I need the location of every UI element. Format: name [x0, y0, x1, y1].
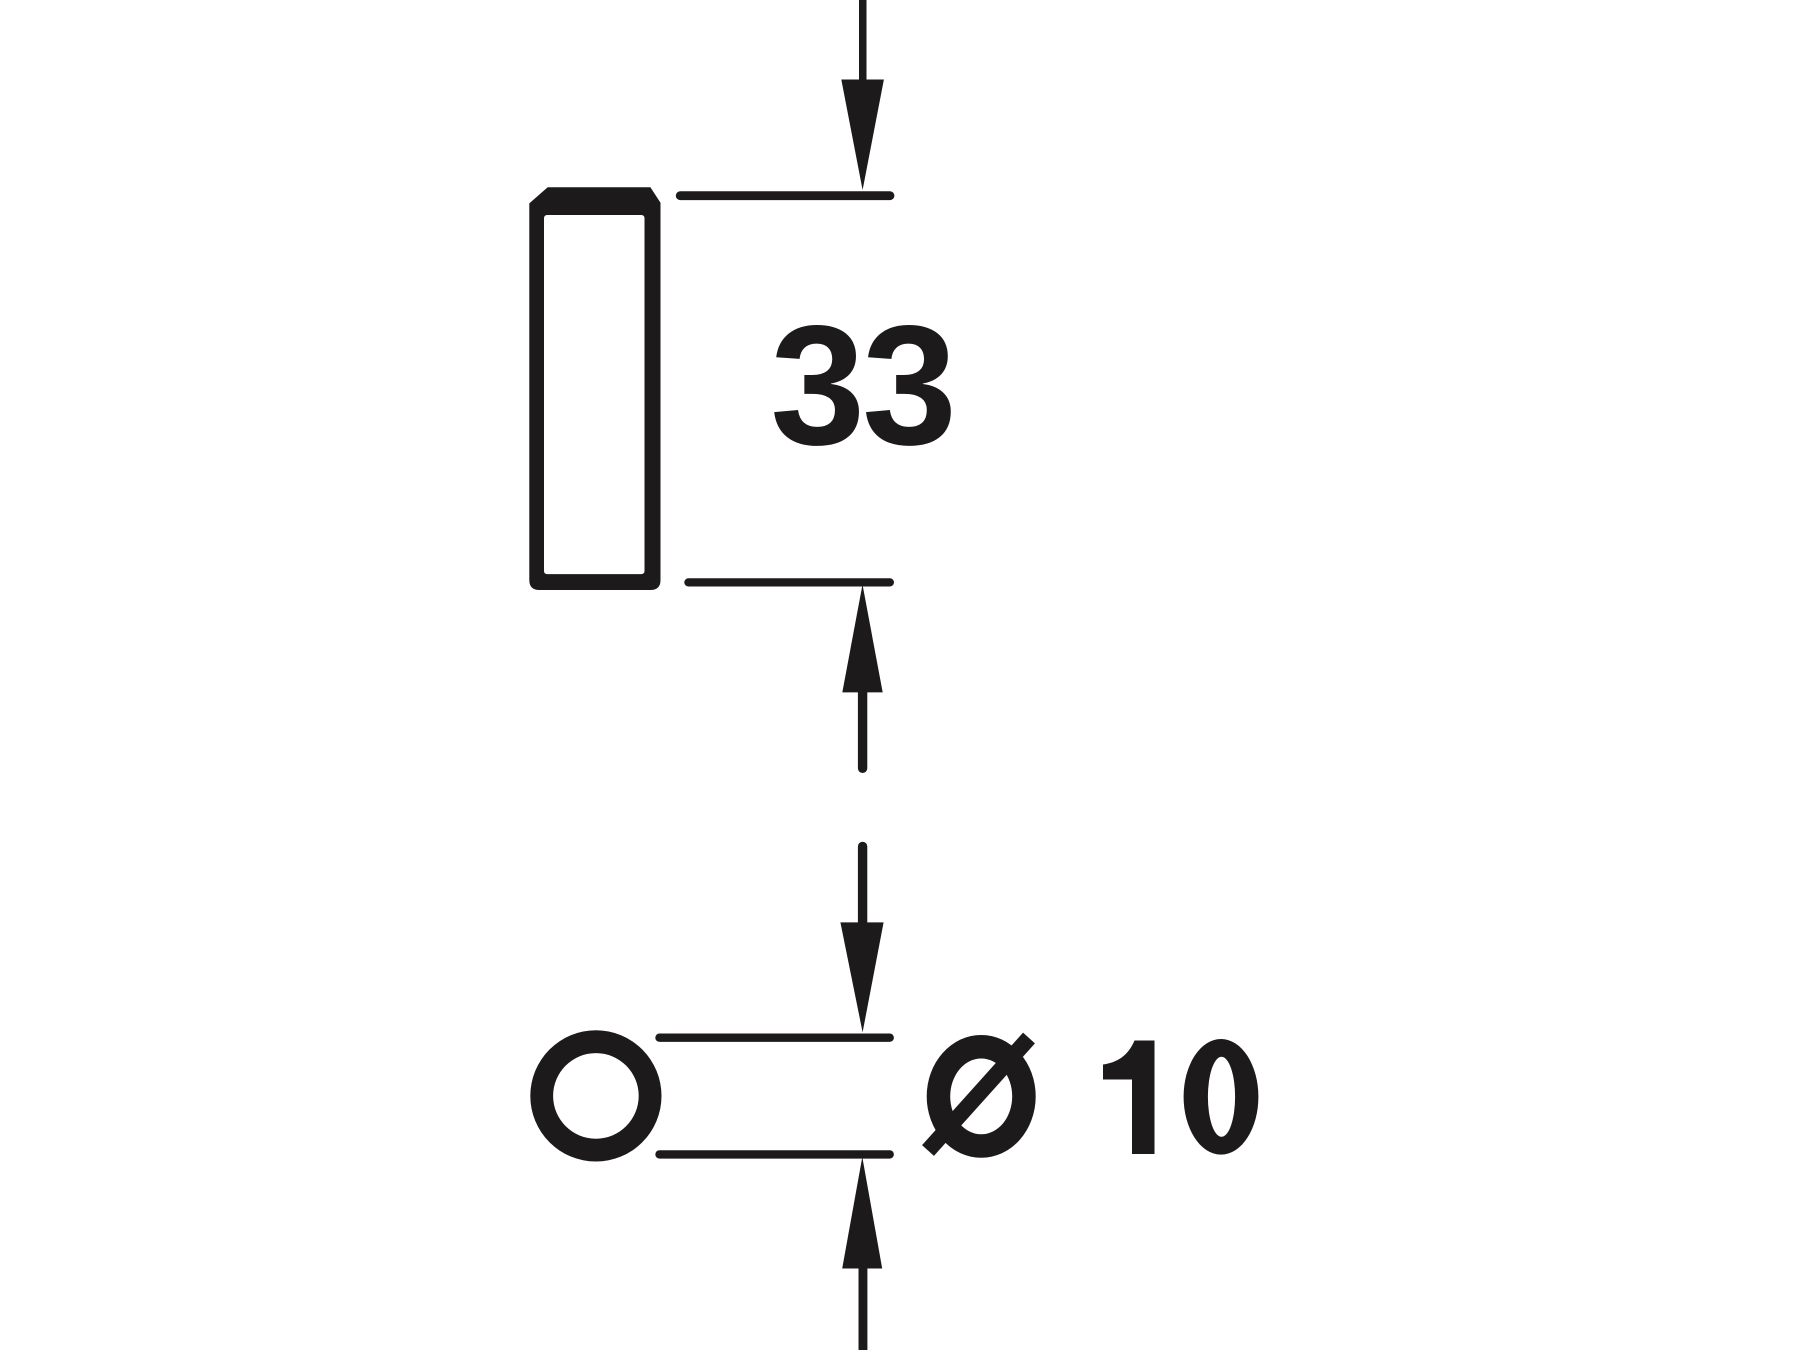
svg-text:33: 33 [770, 291, 954, 481]
